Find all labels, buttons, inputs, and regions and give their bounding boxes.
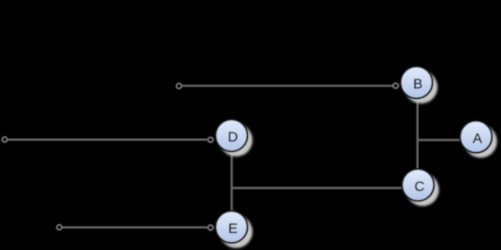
- wire to A: [418, 139, 461, 141]
- endpoint ring at head of wire to B: [393, 83, 398, 88]
- endpoint ring at head of wire to E: [208, 225, 213, 230]
- wire D to E vertical: [231, 152, 233, 211]
- endpoint ring at head of wire to D: [208, 137, 213, 142]
- node B: [401, 67, 438, 104]
- endpoint ring at tail of wire to E: [57, 225, 62, 230]
- wire to B: [182, 85, 393, 87]
- svg-text:E: E: [228, 220, 237, 236]
- endpoint ring at tail of wire to D: [2, 137, 7, 142]
- endpoint ring at tail of wire to B: [177, 84, 182, 89]
- svg-text:C: C: [414, 178, 424, 194]
- node D: [216, 120, 253, 157]
- svg-text:B: B: [413, 76, 422, 92]
- node E: [216, 211, 253, 248]
- wire to D: [8, 139, 207, 141]
- svg-text:A: A: [473, 130, 483, 146]
- node A: [460, 121, 497, 158]
- wire to E: [63, 226, 208, 228]
- wire B to C vertical: [416, 99, 418, 169]
- wire to C: [231, 187, 402, 189]
- svg-text:D: D: [228, 129, 238, 145]
- node C: [402, 169, 439, 206]
